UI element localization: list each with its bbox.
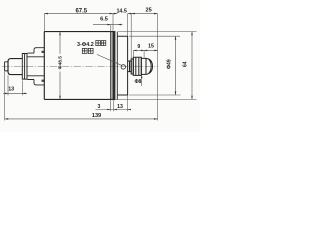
ext 14.5: [113, 14, 128, 37]
flange right edge: [116, 32, 118, 100]
ext 13 plunger: [8, 75, 22, 95]
fake glyph zhou: [88, 48, 93, 53]
ext 9 15: [133, 50, 144, 57]
dim 48.5 vertical: [59, 32, 61, 100]
ext 139 left: [4, 72, 6, 121]
svg-text:13: 13: [8, 86, 14, 92]
svg-text:Φ8: Φ8: [134, 79, 141, 85]
svg-text:139: 139: [92, 113, 101, 119]
svg-text:14.5: 14.5: [116, 8, 127, 14]
dim phi49 vertical: [175, 36, 177, 95]
ext 6.5: [110, 25, 112, 32]
dome cap nut: [141, 58, 152, 74]
washer: [131, 59, 133, 74]
body: [44, 32, 115, 100]
tab top shade: [42, 51, 45, 53]
svg-text:6.5: 6.5: [100, 17, 108, 23]
neck: [27, 57, 44, 76]
tab bottom shade: [42, 80, 45, 82]
flange dark band: [112, 31, 115, 100]
front plate: [22, 54, 27, 80]
svg-text:3: 3: [98, 104, 101, 110]
leader to holes: [97, 54, 122, 65]
svg-text:25: 25: [145, 8, 151, 14]
svg-text:9: 9: [137, 44, 140, 50]
fake glyph bu: [101, 41, 106, 46]
ext phi49: [129, 36, 181, 95]
svg-text:Φ48.5: Φ48.5: [58, 56, 64, 70]
collar: [128, 61, 132, 72]
plunger tip nub: [5, 62, 8, 71]
tab bottom: [28, 80, 45, 85]
end cap: [117, 36, 127, 95]
dim 139: [5, 118, 158, 120]
leader phi8: [141, 76, 143, 86]
plunger head: [8, 59, 22, 75]
ext 64: [116, 32, 197, 100]
svg-text:15: 15: [148, 43, 154, 49]
svg-text:64: 64: [183, 61, 189, 67]
dim 9 and 15: [133, 49, 157, 51]
ext 67.5 left: [43, 14, 45, 32]
svg-text:Φ49: Φ49: [166, 59, 172, 69]
svg-text:3-Φ4.2: 3-Φ4.2: [77, 42, 94, 48]
svg-text:13: 13: [117, 104, 123, 110]
dim 25: [131, 13, 157, 15]
ext 3 13 bottom: [111, 95, 128, 111]
tab top: [28, 48, 45, 53]
dim 13 plunger: [3, 92, 27, 94]
dim 14.5 arrows: [110, 13, 113, 15]
hex nut: [133, 57, 141, 75]
fake glyph yuan: [82, 48, 87, 53]
center line: [2, 65, 158, 67]
dim 64 vertical: [191, 32, 193, 100]
dim 6.5: [93, 24, 123, 26]
fake glyph jun: [82, 41, 105, 54]
dim 67.5 line: [44, 13, 117, 15]
ext 25: [131, 14, 157, 121]
svg-text:67.5: 67.5: [75, 8, 87, 14]
hole circle: [121, 65, 125, 69]
dim 3 and 13 bottom: [96, 109, 132, 111]
